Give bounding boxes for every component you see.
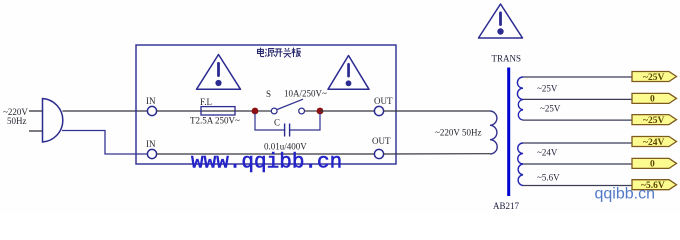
wire fuse to node A [235,110,255,112]
terminal OUT2 [372,136,391,159]
net flag ~24V [632,137,677,148]
terminal OUT1 [374,96,393,116]
enclosure box 电源开关板 [136,45,396,164]
capacitor C 0.01u/400V branch [255,113,320,152]
secondary winding S4 (~5.6V) [518,164,523,186]
svg-text:~24V: ~24V [537,148,558,158]
winding value labels [537,84,561,183]
label ~220V 50Hz (mains input) [3,107,28,126]
svg-text:S: S [266,89,271,99]
svg-text:50Hz: 50Hz [7,116,27,126]
plug XP1 [29,99,63,143]
net flag ~5.6V [632,180,677,191]
板 [292,48,301,57]
wire tap3 to flag ~25V [523,119,632,121]
net flag 0 (lower) [632,158,677,169]
svg-text:TRANS: TRANS [492,53,522,63]
wire tap5 (0) to flag 0 [523,163,632,165]
title 电源开关板 (drawn strokes) [258,48,301,58]
svg-text:~25V: ~25V [643,116,664,126]
wire node A to switch [258,110,271,112]
wire tap2 (0) to flag 0 [523,98,632,100]
transformer primary winding [490,111,497,154]
svg-text:IN: IN [146,139,156,149]
svg-text:AB217: AB217 [493,201,520,211]
wire OUT1 to transformer primary top [384,110,490,112]
switch S 10A/250V~ [266,89,327,114]
secondary winding S3 (~24V) [518,143,523,164]
net flag 0 (upper) [632,93,677,104]
开 [274,49,282,57]
svg-text:~25V: ~25V [643,73,664,83]
svg-text:F.L: F.L [200,97,212,107]
node B (junction) [317,108,324,115]
svg-text:C: C [274,118,280,128]
svg-text:T2.5A 250V~: T2.5A 250V~ [190,116,240,126]
wire IN1 to fuse [157,110,201,112]
svg-text:~5.6V: ~5.6V [537,173,560,183]
secondary winding S1 (~25V) [517,77,523,99]
net flag ~25V (lower) [632,115,677,126]
关 [283,48,291,57]
wire tap6 to flag ~5.6V [523,185,632,187]
wire plug bottom, down and right to IN2 [62,131,148,155]
terminal IN2 [146,139,157,159]
wire switch to node B [305,110,321,112]
源 [265,48,275,57]
fuse FL T2.5A 250V~ [190,97,240,126]
svg-text:OUT: OUT [372,136,391,146]
wire IN2 to OUT2 [157,153,375,155]
svg-text:~220V 50Hz: ~220V 50Hz [435,128,481,138]
svg-text:qqibb.cn: qqibb.cn [595,185,656,202]
secondary winding S2 (~25V) [518,99,523,120]
wire tap4 to flag ~24V [523,142,632,144]
transformer T1 core [507,68,510,197]
warning triangle W2 (right, in box) [328,56,369,90]
svg-text:www.qqibb.cn: www.qqibb.cn [191,152,342,175]
svg-text:IN: IN [146,96,156,106]
warning triangle W3 (above transformer) [479,4,523,38]
svg-text:OUT: OUT [374,96,393,106]
warning triangle W1 (left, in box) [197,55,241,90]
svg-text:0.01u/400V: 0.01u/400V [264,142,307,152]
terminal IN1 [146,96,157,116]
svg-text:10A/250V~: 10A/250V~ [284,89,327,99]
svg-text:~24V: ~24V [643,138,664,148]
svg-text:0: 0 [650,95,655,105]
svg-text:~25V: ~25V [540,104,561,114]
wire node B to OUT1 [320,110,374,112]
svg-text:~25V: ~25V [537,84,558,94]
wire plug to IN1 [63,110,148,112]
node A (junction) [252,108,259,115]
net flag ~25V (top) [632,72,677,83]
wire OUT2 to transformer primary bottom [384,153,490,155]
电 [258,48,265,57]
wire tap1 to flag ~25V [523,76,632,78]
svg-text:0: 0 [650,160,655,170]
